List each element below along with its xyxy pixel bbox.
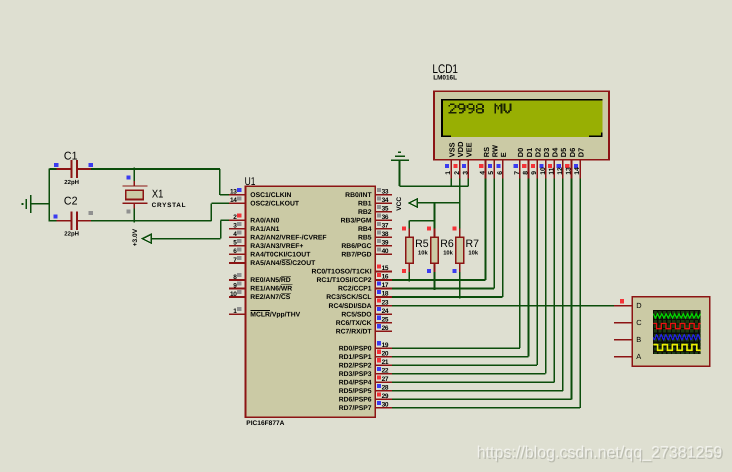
svg-text:OSC1/CLKIN: OSC1/CLKIN bbox=[250, 192, 291, 199]
LCD1 pin 1 (VSS) bbox=[450, 160, 452, 179]
wire OSC1 net top (C1 to U1 pin13) bbox=[49, 168, 56, 170]
node C1 left state square bbox=[54, 163, 58, 167]
LCD1 pin 3 (VEE) bbox=[468, 160, 470, 179]
svg-text:24: 24 bbox=[382, 308, 389, 315]
svg-text:21: 21 bbox=[382, 359, 389, 366]
svg-text:34: 34 bbox=[382, 197, 389, 204]
wire ground rail (vertical, OSC nets left rail) bbox=[49, 168, 51, 221]
svg-text:RE2/AN7/CS: RE2/AN7/CS bbox=[250, 294, 291, 301]
svg-text:R7: R7 bbox=[466, 238, 480, 250]
svg-text:LM016L: LM016L bbox=[433, 75, 457, 82]
svg-text:RD5/PSP5: RD5/PSP5 bbox=[339, 388, 372, 395]
svg-text:9: 9 bbox=[531, 171, 538, 175]
svg-text:22pH: 22pH bbox=[64, 230, 79, 237]
svg-text:38: 38 bbox=[382, 231, 389, 238]
svg-text:RA0/AN0: RA0/AN0 bbox=[250, 218, 279, 225]
U1 pin 18 (right) bbox=[375, 296, 392, 298]
power +3.0V (arrow to RA0) bbox=[142, 234, 151, 243]
svg-text:VEE: VEE bbox=[465, 142, 474, 157]
svg-text:RA2/AN2/VREF-/CVREF: RA2/AN2/VREF-/CVREF bbox=[250, 235, 326, 242]
U1 pin 23 (right) bbox=[375, 305, 392, 307]
U1 pin 10 (left) bbox=[229, 296, 246, 298]
svg-text:RD6/PSP6: RD6/PSP6 bbox=[339, 397, 372, 404]
U1 pin 29 (right) bbox=[375, 399, 392, 401]
svg-text:RB6/PGC: RB6/PGC bbox=[341, 243, 371, 250]
svg-text:35: 35 bbox=[382, 206, 389, 213]
svg-text:RC5/SDO: RC5/SDO bbox=[341, 311, 371, 318]
node X1 bottom state square bbox=[127, 210, 131, 214]
svg-text:1: 1 bbox=[445, 171, 452, 175]
oscilloscope pin D bbox=[614, 305, 632, 307]
svg-text:12: 12 bbox=[557, 167, 564, 175]
svg-text:RB5: RB5 bbox=[358, 235, 372, 242]
svg-text:CRYSTAL: CRYSTAL bbox=[152, 202, 187, 209]
svg-text:14: 14 bbox=[574, 167, 581, 175]
svg-text:A: A bbox=[636, 352, 641, 361]
wire E net (U1 pin18 - R7 - LCD E) bbox=[459, 272, 461, 299]
LCD1 pin 4 (RS) bbox=[485, 160, 487, 179]
svg-text:RD0/PSP0: RD0/PSP0 bbox=[339, 345, 372, 352]
U1 pin 22 (right) bbox=[375, 373, 392, 375]
svg-text:OSC2/CLKOUT: OSC2/CLKOUT bbox=[250, 201, 300, 208]
node R6 bottom state square bbox=[427, 269, 431, 273]
svg-text:RC2/CCP1: RC2/CCP1 bbox=[338, 286, 372, 293]
wire VCC net (to LCD VDD and pull-up resistors) bbox=[417, 202, 459, 204]
svg-text:37: 37 bbox=[382, 223, 389, 230]
LCD1 pin 7 (D0) bbox=[519, 160, 521, 179]
U1 pin 16 (right) bbox=[375, 279, 392, 281]
node C2 left state square bbox=[54, 214, 58, 218]
U1 pin 20 (right) bbox=[375, 356, 392, 358]
svg-text:RA5/AN4/SS/C2OUT: RA5/AN4/SS/C2OUT bbox=[250, 260, 316, 267]
U1 pin 26 (right) bbox=[375, 330, 392, 332]
U1 pin 15 (right) bbox=[375, 271, 392, 273]
svg-text:7: 7 bbox=[514, 171, 521, 175]
svg-text:19: 19 bbox=[382, 342, 389, 349]
svg-text:23: 23 bbox=[382, 299, 389, 306]
svg-text:E: E bbox=[499, 152, 508, 157]
oscilloscope body bbox=[632, 297, 710, 367]
svg-text:C2: C2 bbox=[64, 196, 78, 208]
svg-text:RA3/AN3/VREF+: RA3/AN3/VREF+ bbox=[250, 243, 303, 250]
svg-text:RD7/PSP7: RD7/PSP7 bbox=[339, 405, 372, 412]
U1 pin 30 (right) bbox=[375, 407, 392, 409]
svg-text:10k: 10k bbox=[468, 250, 478, 257]
wire OSC2 net bottom (C2 to U1 pin14) bbox=[49, 220, 56, 222]
U1 pin 1 (left) bbox=[229, 313, 246, 315]
svg-text:RA1/AN1: RA1/AN1 bbox=[250, 226, 279, 233]
svg-text:20: 20 bbox=[382, 350, 389, 357]
U1 pin 21 (right) bbox=[375, 364, 392, 366]
svg-text:C1: C1 bbox=[64, 150, 78, 162]
U1 pin 37 (right) bbox=[375, 228, 392, 230]
power VCC (arrow near U1) bbox=[409, 199, 417, 207]
LCD1 pin 2 (VDD) bbox=[459, 160, 461, 179]
svg-text:RB3/PGM: RB3/PGM bbox=[341, 218, 372, 225]
LCD1 pin 8 (D1) bbox=[528, 160, 530, 179]
node R6 top state square bbox=[427, 226, 431, 230]
svg-text:RC1/T1OSI/CCP2: RC1/T1OSI/CCP2 bbox=[316, 277, 371, 284]
svg-text:RD2/PSP2: RD2/PSP2 bbox=[339, 362, 372, 369]
svg-text:13: 13 bbox=[566, 167, 573, 175]
resistor R5 (10k pull-up) bbox=[409, 229, 411, 238]
svg-text:36: 36 bbox=[382, 214, 389, 221]
svg-text:RD3/PSP3: RD3/PSP3 bbox=[339, 371, 372, 378]
svg-text:RC3/SCK/SCL: RC3/SCK/SCL bbox=[326, 294, 371, 301]
svg-text:10: 10 bbox=[540, 167, 547, 175]
svg-text:R6: R6 bbox=[440, 238, 454, 250]
svg-text:RC7/RX/DT: RC7/RX/DT bbox=[336, 328, 373, 335]
node C2 right state square bbox=[89, 211, 93, 215]
svg-text:RB4: RB4 bbox=[358, 226, 372, 233]
svg-text:RB1: RB1 bbox=[358, 201, 372, 208]
svg-text:RA4/T0CKI/C1OUT: RA4/T0CKI/C1OUT bbox=[250, 252, 311, 259]
scope trace channel D (green) bbox=[653, 314, 700, 318]
U1 pin 35 (right) bbox=[375, 211, 392, 213]
svg-text:22pH: 22pH bbox=[64, 179, 79, 186]
U1 pin 39 (right) bbox=[375, 245, 392, 247]
svg-text:39: 39 bbox=[382, 240, 389, 247]
wire scope D net (U1 pin23 to oscilloscope D) bbox=[392, 305, 614, 307]
svg-text:RB7/PGD: RB7/PGD bbox=[341, 252, 371, 259]
svg-text:27: 27 bbox=[382, 376, 389, 383]
node R5 bottom state square bbox=[402, 269, 406, 273]
svg-text:15: 15 bbox=[382, 265, 389, 272]
svg-text:D7: D7 bbox=[576, 148, 585, 157]
node C1 right state square bbox=[89, 163, 93, 167]
wire D2 net (U1 pin21 to LCD D2) bbox=[536, 178, 538, 365]
svg-text:X1: X1 bbox=[152, 188, 164, 200]
LCD1 pin 6 (E) bbox=[502, 160, 504, 179]
svg-text:33: 33 bbox=[382, 189, 389, 196]
crystal X1 bbox=[134, 168, 136, 181]
U1 pin 5 (left) bbox=[229, 245, 246, 247]
U1 pin 33 (right) bbox=[375, 194, 392, 196]
svg-text:5: 5 bbox=[488, 171, 495, 175]
svg-text:40: 40 bbox=[382, 248, 389, 255]
svg-text:RC4/SDI/SDA: RC4/SDI/SDA bbox=[329, 303, 372, 310]
oscilloscope pin C bbox=[614, 322, 632, 324]
node R5 top state square bbox=[402, 226, 406, 230]
LCD1 pin 5 (RW) bbox=[493, 160, 495, 179]
ground (near LCD, GND symbol) bbox=[398, 152, 401, 153]
U1 pin 2 (left) bbox=[229, 220, 246, 222]
wire D1 net (U1 pin20 to LCD D1) bbox=[528, 178, 530, 356]
svg-text:RB2: RB2 bbox=[358, 209, 372, 216]
svg-text:14: 14 bbox=[230, 197, 237, 204]
node scope D state square bbox=[620, 299, 624, 303]
U1 pin 38 (right) bbox=[375, 237, 392, 239]
svg-text:2: 2 bbox=[454, 171, 461, 175]
svg-text:RD1/PSP1: RD1/PSP1 bbox=[339, 354, 372, 361]
svg-text:26: 26 bbox=[382, 325, 389, 332]
U1 pin 27 (right) bbox=[375, 381, 392, 383]
svg-text:18: 18 bbox=[382, 291, 389, 298]
LCD display text 2998 MV bbox=[448, 103, 511, 113]
U1 chip body (PIC16F877A) bbox=[246, 186, 376, 417]
ground (left, GND symbol) bbox=[21, 203, 23, 205]
svg-text:RE1/AN6/WR: RE1/AN6/WR bbox=[250, 286, 292, 293]
wire RW net (U1 pin17 - R6 - LCD RW) bbox=[434, 272, 436, 290]
LCD1 body (LM016L) bbox=[434, 91, 609, 160]
wire D5 net (U1 pin28 to LCD D5) bbox=[562, 178, 564, 390]
U1 pin 9 (left) bbox=[229, 288, 246, 290]
LCD1 pin 10 (D3) bbox=[545, 160, 547, 179]
svg-text:B: B bbox=[636, 335, 641, 344]
LCD screen (green display area) bbox=[443, 100, 603, 136]
U1 pin 17 (right) bbox=[375, 288, 392, 290]
svg-text:11: 11 bbox=[548, 167, 555, 174]
svg-text:R5: R5 bbox=[415, 238, 429, 250]
scope trace channel C (red square wave) bbox=[653, 324, 701, 329]
svg-text:4: 4 bbox=[480, 171, 487, 175]
node R7 top state square bbox=[452, 226, 456, 230]
svg-text:29: 29 bbox=[382, 393, 389, 400]
svg-text:D: D bbox=[636, 301, 641, 310]
svg-text:30: 30 bbox=[382, 402, 389, 409]
svg-text:RC6/TX/CK: RC6/TX/CK bbox=[336, 320, 372, 327]
U1 pin 28 (right) bbox=[375, 390, 392, 392]
svg-text:10: 10 bbox=[230, 291, 237, 298]
oscilloscope pin A bbox=[614, 356, 632, 358]
svg-text:RB0/INT: RB0/INT bbox=[345, 192, 372, 199]
U1 pin 25 (right) bbox=[375, 322, 392, 324]
svg-text:3: 3 bbox=[462, 171, 469, 175]
LCD1 pin 14 (D7) bbox=[579, 160, 581, 179]
U1 pin 4 (left) bbox=[229, 237, 246, 239]
LCD1 pin 9 (D2) bbox=[536, 160, 538, 179]
wire D0 net (U1 pin19 to LCD D0) bbox=[519, 178, 521, 348]
svg-text:RD4/PSP4: RD4/PSP4 bbox=[339, 379, 372, 386]
resistor R6 (10k pull-up) bbox=[434, 229, 436, 238]
wire D3 net (U1 pin22 to LCD D3) bbox=[545, 178, 547, 373]
svg-text:VCC: VCC bbox=[396, 197, 403, 211]
U1 pin 19 (right) bbox=[375, 347, 392, 349]
U1 pin 24 (right) bbox=[375, 313, 392, 315]
svg-text:28: 28 bbox=[382, 385, 389, 392]
node X1 top state square bbox=[127, 176, 131, 180]
scope trace channel A (yellow square wave) bbox=[653, 345, 701, 351]
U1 pin 40 (right) bbox=[375, 254, 392, 256]
svg-text:8: 8 bbox=[523, 171, 530, 175]
svg-text:RC0/T1OSO/T1CKI: RC0/T1OSO/T1CKI bbox=[312, 269, 372, 276]
svg-text:C: C bbox=[636, 318, 642, 327]
svg-text:PIC16F877A: PIC16F877A bbox=[246, 420, 284, 427]
svg-text:17: 17 bbox=[382, 282, 389, 289]
svg-text:16: 16 bbox=[382, 274, 389, 281]
wire D6 net (U1 pin29 to LCD D6) bbox=[571, 178, 573, 399]
svg-text:25: 25 bbox=[382, 316, 389, 323]
U1 pin 8 (left) bbox=[229, 279, 246, 281]
U1 pin 34 (right) bbox=[375, 203, 392, 205]
svg-text:https://blog.csdn.net/qq_27381: https://blog.csdn.net/qq_27381259 bbox=[477, 444, 723, 462]
wire VSS/VEE ground net bbox=[399, 161, 401, 186]
U1 pin 3 (left) bbox=[229, 228, 246, 230]
capacitor C2 bbox=[56, 220, 70, 222]
capacitor C1 bbox=[56, 168, 70, 170]
U1 pin 6 (left) bbox=[229, 254, 246, 256]
wire RA0 net (arrow to U1 pin2) bbox=[151, 238, 220, 240]
svg-text:U1: U1 bbox=[245, 176, 256, 188]
wire D4 net (U1 pin27 to LCD D4) bbox=[554, 178, 556, 382]
oscilloscope pin B bbox=[614, 339, 632, 341]
wire D7 net (U1 pin30 to LCD D7) bbox=[579, 178, 581, 407]
LCD1 pin 11 (D4) bbox=[554, 160, 556, 179]
svg-text:10k: 10k bbox=[418, 250, 428, 257]
U1 pin 13 (left) bbox=[229, 194, 246, 196]
scope trace channel B (blue sine) bbox=[653, 335, 700, 340]
oscilloscope screen bbox=[653, 310, 701, 354]
svg-text:10k: 10k bbox=[443, 250, 453, 257]
svg-text:+3.0V: +3.0V bbox=[132, 228, 139, 246]
wire RS net (U1 pin16 - R5 - LCD RS) bbox=[409, 272, 411, 282]
svg-text:RE0/AN5/RD: RE0/AN5/RD bbox=[250, 277, 291, 284]
svg-text:13: 13 bbox=[230, 189, 237, 196]
U1 pin 7 (left) bbox=[229, 262, 246, 264]
svg-text:6: 6 bbox=[497, 171, 504, 175]
LCD1 pin 13 (D6) bbox=[571, 160, 573, 179]
LCD1 pin 12 (D5) bbox=[562, 160, 564, 179]
svg-text:MCLR/Vpp/THV: MCLR/Vpp/THV bbox=[250, 311, 300, 318]
U1 pin 14 (left) bbox=[229, 203, 246, 205]
svg-text:22: 22 bbox=[382, 367, 389, 374]
resistor R7 (10k pull-up) bbox=[459, 229, 461, 238]
U1 pin 36 (right) bbox=[375, 220, 392, 222]
node R7 bottom state square bbox=[452, 269, 456, 273]
